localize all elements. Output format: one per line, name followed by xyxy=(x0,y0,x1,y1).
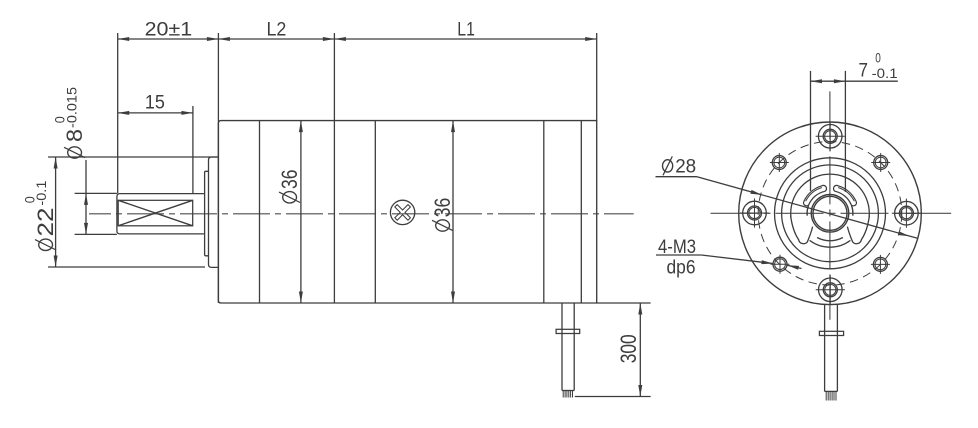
screw hole right xyxy=(895,201,919,225)
extension line 15 right xyxy=(192,106,194,193)
hub foot lobe right xyxy=(847,216,869,244)
svg-text:-0.1: -0.1 xyxy=(34,181,49,206)
pilot boss φ22 xyxy=(209,157,219,267)
arrow 20±1 left xyxy=(118,37,130,41)
motor can joint xyxy=(543,121,545,303)
extension line φ8 bottom xyxy=(75,233,117,235)
lead wire sleeve side view xyxy=(561,303,563,391)
hub ear tab left xyxy=(804,185,827,205)
svg-text:20±1: 20±1 xyxy=(145,20,193,41)
wire strands side view xyxy=(562,391,564,398)
screw hole bottom xyxy=(819,278,843,302)
arrow φ22 top xyxy=(54,157,58,169)
extension line L2/L1 joint xyxy=(333,33,335,303)
wire collar front view xyxy=(819,331,843,335)
label φ36 motor xyxy=(430,198,455,232)
arrow φ36 gearbox top xyxy=(299,121,303,133)
shaft flat with cross mark xyxy=(118,200,193,226)
dimension line φ36 gearbox xyxy=(300,121,302,303)
leader 4-M3 underline xyxy=(656,254,701,256)
svg-text:0: 0 xyxy=(875,50,881,65)
wire strands front view xyxy=(825,391,827,400)
arrow φ8 top xyxy=(84,193,88,205)
M3 hole lower-right xyxy=(873,257,887,271)
extension line shaft end xyxy=(117,33,119,193)
arrow φ22 bottom xyxy=(54,256,58,268)
flange outer circle xyxy=(739,122,922,305)
gearbox front plate joint xyxy=(259,121,261,303)
dimension line 15 xyxy=(118,112,193,114)
arrow 4-M3 right xyxy=(787,265,799,270)
arrow 7 right xyxy=(834,79,846,83)
shaft circle xyxy=(811,195,849,233)
label φ28 xyxy=(663,156,697,177)
hub circle interrupted at feet xyxy=(791,174,870,217)
extension line front face xyxy=(217,33,219,303)
arrow 15 right xyxy=(181,111,193,115)
arrow φ28 lower-right xyxy=(898,231,910,236)
dimension line φ22 xyxy=(55,157,57,267)
dimension line 300 xyxy=(639,303,641,397)
output shaft xyxy=(117,194,204,234)
leader 4-M3 tail xyxy=(787,265,801,268)
arrow 300 top xyxy=(638,303,642,315)
arrow 4-M3 left xyxy=(761,260,773,264)
label φ22 xyxy=(33,208,58,251)
hub foot lobe left xyxy=(791,216,813,244)
hub ear tab right xyxy=(833,185,856,205)
arrow L1 left xyxy=(334,37,346,41)
leader 4-M3 xyxy=(701,255,773,264)
leader φ28 xyxy=(697,177,917,239)
extension line 7 left xyxy=(810,71,812,191)
svg-text:28: 28 xyxy=(675,157,696,178)
screw head symbol xyxy=(390,200,414,224)
svg-text:8: 8 xyxy=(62,129,87,142)
lead wire sleeve front view xyxy=(824,305,826,392)
arrow 20±1 right xyxy=(207,37,219,41)
svg-text:L1: L1 xyxy=(457,20,475,41)
arrow 15 left xyxy=(118,111,130,115)
arrow φ36 motor top xyxy=(451,121,455,133)
extension line 300 bottom xyxy=(575,396,651,398)
arrow 300 bottom xyxy=(638,385,642,397)
arrow φ36 gearbox bottom xyxy=(299,292,303,304)
label φ36 gearbox xyxy=(277,170,302,204)
svg-text:-0.015: -0.015 xyxy=(65,87,80,128)
front face circle A xyxy=(775,158,886,269)
hub band arc right xyxy=(852,206,853,216)
leader φ28 underline xyxy=(656,176,698,178)
screw hole top xyxy=(818,125,842,149)
hub bottom arc inner xyxy=(817,238,843,241)
svg-text:36: 36 xyxy=(430,198,455,218)
arrow L1 right xyxy=(585,37,597,41)
hub band arc left xyxy=(807,206,808,216)
extension line 300 top xyxy=(597,302,651,304)
arrow 7 left xyxy=(811,79,823,83)
dimension line 7 xyxy=(811,80,898,82)
svg-text:15: 15 xyxy=(145,93,165,114)
extension line motor rear xyxy=(596,33,598,121)
svg-text:dp6: dp6 xyxy=(667,258,696,279)
wire collar side view xyxy=(556,329,580,333)
arrow φ28 upper-left xyxy=(750,190,762,195)
extension line 7 right xyxy=(844,71,846,192)
M3 hole upper-left xyxy=(772,156,786,170)
centerline front view vertical xyxy=(829,91,831,319)
arrow L2 left xyxy=(218,37,230,41)
dimension line φ8 xyxy=(85,160,87,234)
shaft chamfer circle xyxy=(813,196,847,230)
extension line φ22 top xyxy=(48,156,218,158)
front face circle B xyxy=(782,165,879,262)
centerline side view xyxy=(89,213,634,215)
svg-text:L2: L2 xyxy=(266,20,286,41)
svg-text:22: 22 xyxy=(33,208,58,237)
svg-text:7: 7 xyxy=(859,60,869,81)
dimension line top row xyxy=(118,38,597,40)
arrow φ8 bottom xyxy=(84,223,88,235)
svg-text:300: 300 xyxy=(616,334,641,363)
extension line φ22 bottom xyxy=(48,266,205,268)
hub bottom arc outer xyxy=(810,240,851,247)
arrow φ36 motor bottom xyxy=(451,292,455,304)
arrow L2 right xyxy=(323,37,335,41)
M3 hole lower-left xyxy=(773,257,787,271)
rear end cap joint xyxy=(580,121,582,303)
M3 hole upper-right xyxy=(874,156,888,170)
screw hole left xyxy=(743,201,767,225)
gearbox rear joint xyxy=(374,121,376,303)
dimension line φ36 motor xyxy=(452,121,454,303)
bolt circle φ28 dashed xyxy=(758,142,902,286)
gearbox and motor body outline xyxy=(218,121,596,303)
svg-text:-0.1: -0.1 xyxy=(872,66,898,81)
label φ8 xyxy=(62,129,87,158)
svg-text:36: 36 xyxy=(277,170,302,190)
centerline front view horizontal xyxy=(711,212,952,214)
shaft step ring xyxy=(205,171,209,256)
extension line φ8 top xyxy=(75,192,117,194)
